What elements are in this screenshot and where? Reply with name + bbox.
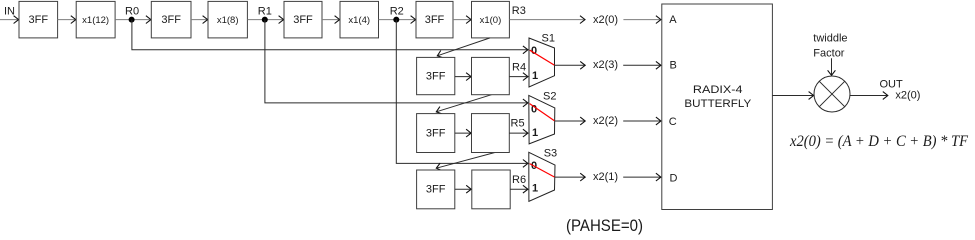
svg-text:x2(0): x2(0)	[593, 14, 618, 26]
wire butterfly output to multiplier	[772, 95, 813, 97]
svg-text:3FF: 3FF	[293, 14, 313, 26]
wire multiplier to OUT	[850, 95, 888, 97]
mux S2 selected path 0 (red)	[530, 104, 555, 121]
wire FF1 to M1	[58, 19, 76, 21]
wire diagonal D5 bottom to FF6 top	[436, 95, 491, 112]
wire diagonal D6 bottom to FF7 top	[436, 153, 495, 169]
wire FF7 to D7	[455, 188, 471, 190]
svg-text:1: 1	[532, 183, 538, 195]
wire R4 to S1 input 1	[509, 76, 528, 78]
svg-text:R3: R3	[512, 5, 526, 17]
svg-text:1: 1	[532, 70, 538, 82]
mux S3 selected path 0 (red)	[530, 164, 555, 177]
wire x2(0) to butterfly input A	[623, 19, 661, 21]
svg-text:3FF: 3FF	[29, 14, 49, 26]
svg-text:A: A	[669, 14, 677, 26]
mux S1	[529, 38, 555, 87]
svg-text:x2(0) = (A + D + C + B) * TF: x2(0) = (A + D + C + B) * TF	[789, 133, 968, 150]
svg-text:x1(4): x1(4)	[348, 15, 370, 26]
svg-text:x1(12): x1(12)	[82, 15, 109, 26]
svg-text:C: C	[669, 116, 677, 128]
wire S1 output to x2(3)	[555, 64, 586, 66]
register D6 (unlabeled)	[472, 114, 510, 153]
node R2 (junction dot)	[393, 17, 399, 23]
mux S3	[529, 152, 555, 201]
wire FF3 to M3	[322, 19, 340, 21]
svg-text:x2(3): x2(3)	[593, 59, 618, 71]
svg-text:R2: R2	[390, 6, 404, 18]
multiplier M4 x1(0)	[472, 1, 510, 38]
wire feedback R2 down and right to S3 input 0	[396, 20, 528, 164]
svg-text:x2(2): x2(2)	[593, 115, 618, 127]
svg-text:BUTTERFLY: BUTTERFLY	[684, 98, 751, 110]
svg-text:RADIX-4: RADIX-4	[693, 84, 743, 96]
multiplier U2 (circle with X)	[814, 76, 850, 112]
svg-text:3FF: 3FF	[425, 14, 445, 26]
svg-text:IN: IN	[4, 6, 15, 18]
wire R3 to x2(0)	[509, 19, 585, 21]
svg-text:twiddle: twiddle	[813, 33, 847, 45]
register D5 (unlabeled)	[472, 57, 510, 94]
register FF5 (3FF)	[417, 57, 455, 94]
mux S1 selected path 0 (red)	[530, 50, 555, 65]
register FF7 (3FF)	[417, 170, 455, 209]
mux S2	[529, 95, 555, 143]
wire R5 to S2 input 1	[509, 132, 528, 134]
svg-text:Factor: Factor	[813, 48, 845, 60]
node R1 (junction dot)	[262, 17, 268, 23]
wire feedback R0 down and right to S1 input 0	[132, 20, 528, 50]
wire x2(3) to butterfly input B	[623, 64, 661, 66]
svg-text:3FF: 3FF	[426, 70, 446, 82]
svg-text:x2(0): x2(0)	[895, 90, 920, 102]
svg-text:x1(8): x1(8)	[217, 15, 239, 26]
wire x2(2) to butterfly input C	[623, 120, 661, 122]
svg-text:R1: R1	[258, 6, 272, 18]
svg-text:x1(0): x1(0)	[480, 15, 502, 26]
svg-text:D: D	[670, 173, 678, 185]
wire S2 output to x2(2)	[555, 120, 586, 122]
svg-text:(PAHSE=0): (PAHSE=0)	[566, 216, 643, 235]
register FF3 (3FF)	[284, 1, 322, 38]
svg-text:3FF: 3FF	[426, 184, 446, 196]
svg-text:S3: S3	[544, 148, 557, 160]
svg-text:B: B	[670, 59, 677, 71]
wire FF5 to D5	[455, 76, 471, 78]
svg-text:S1: S1	[542, 33, 555, 45]
svg-text:R5: R5	[511, 118, 525, 130]
svg-text:x2(1): x2(1)	[593, 171, 618, 183]
wire M1 to FF2 through node R0	[115, 19, 151, 21]
wire S3 output to x2(1)	[555, 176, 586, 178]
register FF6 (3FF)	[417, 114, 455, 153]
wire FF6 to D6	[455, 132, 471, 134]
svg-text:1: 1	[532, 127, 538, 139]
register FF1 (3FF)	[19, 1, 58, 38]
svg-text:R0: R0	[125, 6, 139, 18]
wire R6 to S3 input 1	[510, 188, 528, 190]
wire x2(1) to butterfly input D	[623, 176, 661, 178]
svg-text:R6: R6	[512, 174, 526, 186]
wire M2 to FF3 through node R1	[247, 19, 283, 21]
wire feedback R1 down and right to S2 input 0	[265, 20, 528, 103]
wire FF2 to M2	[191, 19, 208, 21]
multiplier M3 x1(4)	[340, 1, 379, 38]
wire IN to FF1	[0, 19, 19, 21]
svg-text:R4: R4	[512, 62, 526, 74]
register D7 (unlabeled)	[472, 170, 510, 209]
svg-text:3FF: 3FF	[161, 14, 181, 26]
wire FF4 to M4	[453, 19, 471, 21]
svg-text:3FF: 3FF	[426, 127, 446, 139]
multiplier M2 x1(8)	[208, 1, 247, 38]
node R0 (junction dot)	[129, 17, 135, 23]
multiplier M1 x1(12)	[76, 1, 115, 38]
wire M3 to FF4 through node R2	[379, 19, 416, 21]
wire diagonal M4 bottom to FF5 top	[437, 38, 490, 56]
wire twiddle factor into multiplier	[831, 58, 833, 75]
register FF2 (3FF)	[151, 1, 191, 38]
block U1 RADIX-4 BUTTERFLY	[662, 4, 773, 210]
register FF4 (3FF)	[416, 1, 453, 38]
svg-text:S2: S2	[543, 91, 556, 103]
